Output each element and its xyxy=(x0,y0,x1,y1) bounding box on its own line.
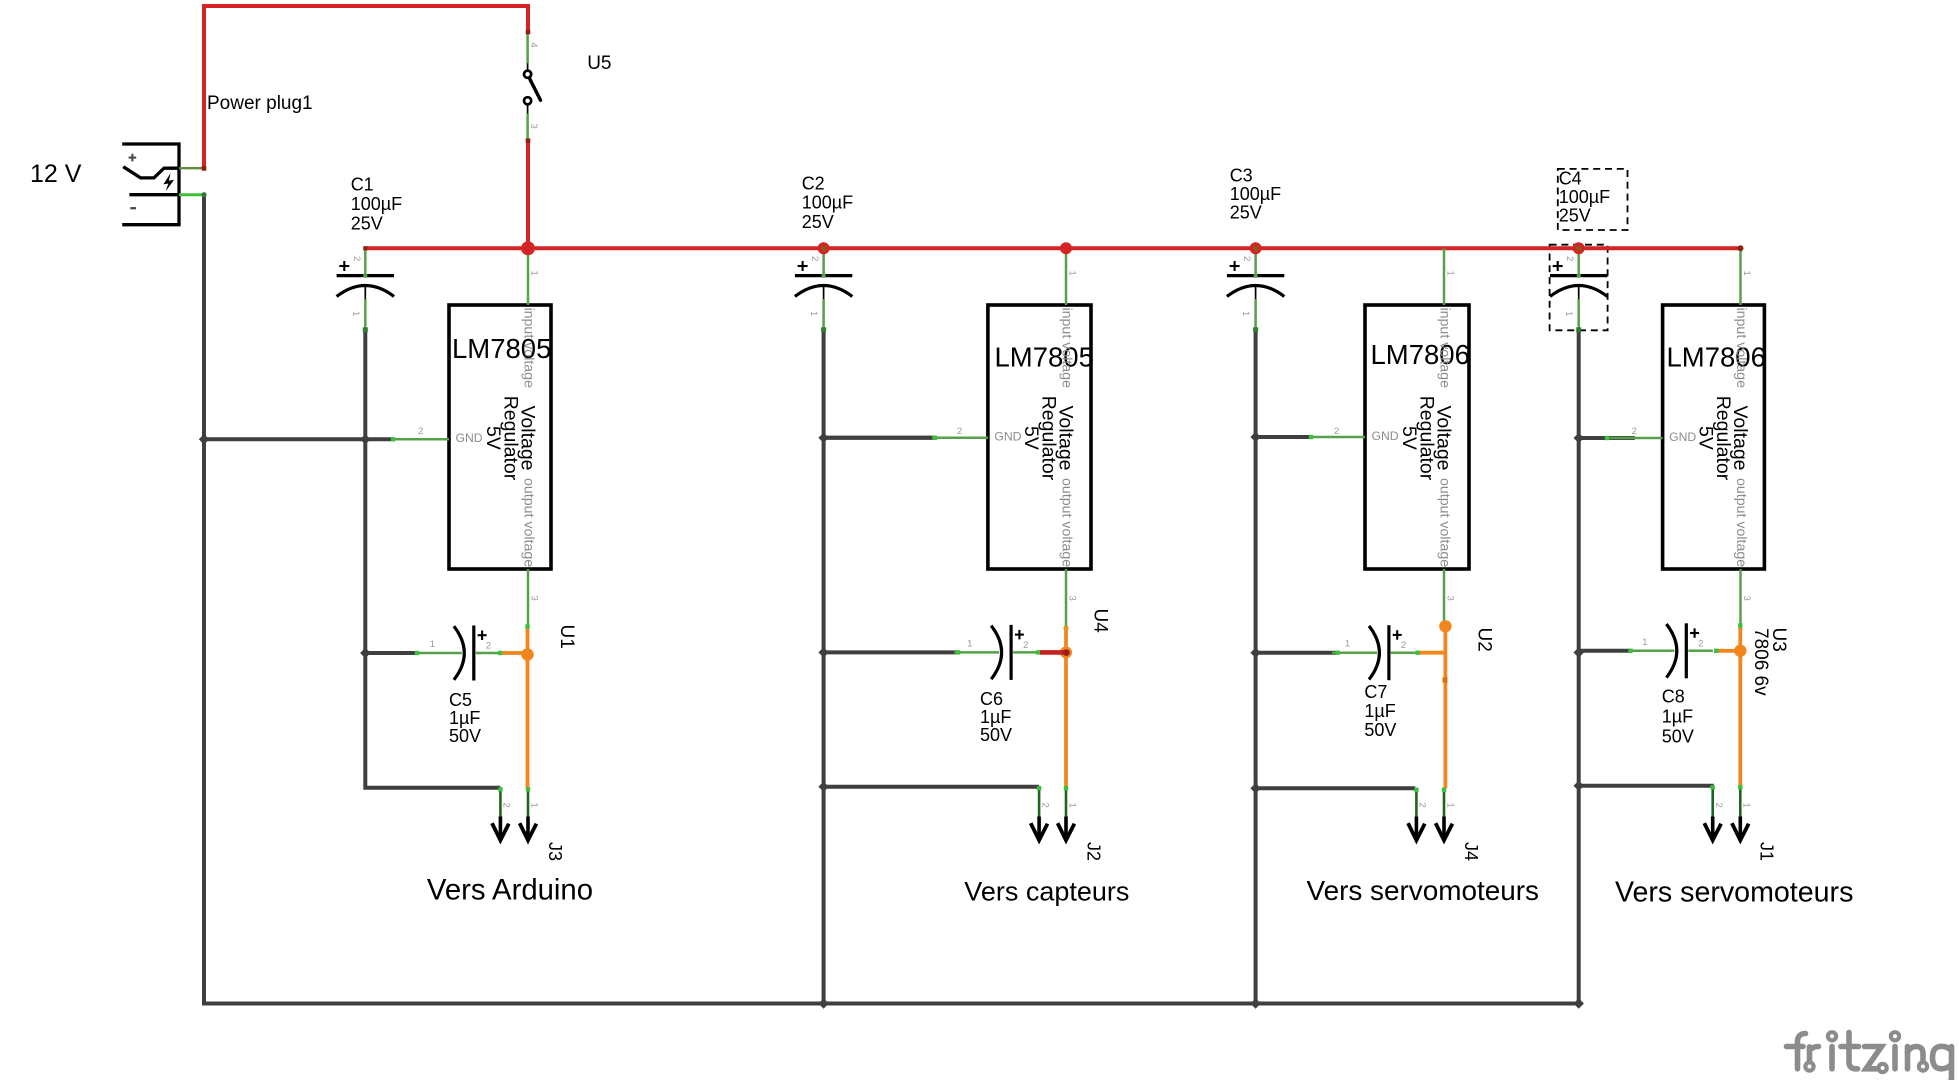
svg-text:5V: 5V xyxy=(482,426,504,450)
svg-text:1: 1 xyxy=(1741,271,1752,276)
svg-text:3: 3 xyxy=(1445,596,1456,601)
svg-text:1: 1 xyxy=(529,271,540,276)
svg-text:100µF: 100µF xyxy=(1559,187,1610,207)
svg-text:1: 1 xyxy=(1741,803,1752,808)
svg-text:C3: C3 xyxy=(1230,166,1253,186)
svg-text:GND: GND xyxy=(1669,430,1696,444)
svg-text:GND: GND xyxy=(1372,429,1399,443)
svg-text:1: 1 xyxy=(808,311,819,316)
svg-text:U4: U4 xyxy=(1090,609,1111,634)
svg-text:C6: C6 xyxy=(980,689,1003,709)
svg-text:input voltage: input voltage xyxy=(521,308,537,389)
svg-text:input voltage: input voltage xyxy=(1733,308,1749,389)
svg-text:C7: C7 xyxy=(1364,682,1387,702)
svg-text:LM7806: LM7806 xyxy=(1371,339,1470,370)
svg-text:2: 2 xyxy=(351,256,362,261)
svg-text:J3: J3 xyxy=(545,842,565,861)
svg-text:5V: 5V xyxy=(1398,426,1420,450)
svg-text:50V: 50V xyxy=(980,725,1012,745)
svg-text:C1: C1 xyxy=(351,175,374,195)
svg-text:2: 2 xyxy=(1713,803,1724,808)
svg-text:2: 2 xyxy=(1241,256,1252,261)
svg-text:25V: 25V xyxy=(1559,206,1591,226)
svg-text:1µF: 1µF xyxy=(449,708,480,728)
svg-text:2: 2 xyxy=(501,803,512,808)
svg-text:Power plug1: Power plug1 xyxy=(207,93,313,114)
svg-text:1: 1 xyxy=(430,639,435,650)
svg-text:1: 1 xyxy=(528,803,539,808)
svg-text:U5: U5 xyxy=(587,53,611,74)
svg-text:1µF: 1µF xyxy=(1364,701,1395,721)
svg-text:50V: 50V xyxy=(1364,720,1396,740)
svg-text:1: 1 xyxy=(350,311,361,316)
svg-text:2: 2 xyxy=(957,426,962,437)
svg-text:1µF: 1µF xyxy=(980,707,1011,727)
svg-text:25V: 25V xyxy=(802,212,834,232)
svg-text:50V: 50V xyxy=(449,726,481,746)
svg-text:output voltage: output voltage xyxy=(1733,478,1749,567)
svg-text:C4: C4 xyxy=(1559,168,1582,188)
svg-text:Vers Arduino: Vers Arduino xyxy=(427,874,593,907)
svg-text:1: 1 xyxy=(967,638,972,649)
svg-text:Vers servomoteurs: Vers servomoteurs xyxy=(1615,877,1853,909)
svg-text:100µF: 100µF xyxy=(802,193,853,213)
svg-text:GND: GND xyxy=(994,430,1021,444)
svg-text:Vers servomoteurs: Vers servomoteurs xyxy=(1307,875,1540,906)
svg-text:J4: J4 xyxy=(1461,842,1481,861)
svg-text:LM7805: LM7805 xyxy=(995,342,1094,373)
svg-text:output voltage: output voltage xyxy=(1059,478,1075,567)
svg-text:J2: J2 xyxy=(1084,842,1104,861)
svg-text:C2: C2 xyxy=(802,173,825,193)
svg-text:LM7806: LM7806 xyxy=(1667,342,1766,373)
svg-text:1: 1 xyxy=(1240,311,1251,316)
svg-text:C8: C8 xyxy=(1662,687,1685,707)
svg-text:input voltage: input voltage xyxy=(1437,308,1453,389)
svg-text:2: 2 xyxy=(1334,426,1339,437)
svg-text:7806 6v: 7806 6v xyxy=(1750,628,1771,696)
svg-text:1: 1 xyxy=(1444,803,1455,808)
svg-text:1µF: 1µF xyxy=(1662,707,1693,727)
svg-text:U1: U1 xyxy=(556,625,577,649)
svg-text:2: 2 xyxy=(809,256,820,261)
svg-text:2: 2 xyxy=(486,641,491,652)
svg-text:50V: 50V xyxy=(1662,727,1694,747)
svg-text:1: 1 xyxy=(1345,639,1350,650)
svg-text:1: 1 xyxy=(1445,271,1456,276)
svg-text:2: 2 xyxy=(1023,640,1028,651)
svg-text:Vers capteurs: Vers capteurs xyxy=(964,877,1129,907)
svg-text:2: 2 xyxy=(1417,803,1428,808)
svg-text:J1: J1 xyxy=(1757,842,1777,861)
svg-text:U2: U2 xyxy=(1474,628,1495,652)
svg-text:25V: 25V xyxy=(351,213,383,233)
svg-text:output voltage: output voltage xyxy=(521,478,537,567)
svg-text:12 V: 12 V xyxy=(30,160,82,188)
svg-text:3: 3 xyxy=(528,124,539,129)
svg-text:5V: 5V xyxy=(1020,426,1042,450)
svg-text:GND: GND xyxy=(456,431,483,445)
svg-text:output voltage: output voltage xyxy=(1437,478,1453,567)
svg-text:3: 3 xyxy=(1067,596,1078,601)
svg-text:2: 2 xyxy=(1632,426,1637,437)
svg-text:3: 3 xyxy=(529,596,540,601)
svg-text:100µF: 100µF xyxy=(1230,184,1281,204)
svg-text:C5: C5 xyxy=(449,690,472,710)
svg-text:1: 1 xyxy=(1563,311,1574,316)
svg-text:100µF: 100µF xyxy=(351,194,402,214)
svg-text:4: 4 xyxy=(528,42,539,47)
svg-text:2: 2 xyxy=(418,426,423,437)
svg-text:2: 2 xyxy=(1698,638,1703,649)
svg-text:input voltage: input voltage xyxy=(1059,308,1075,389)
svg-text:2: 2 xyxy=(1039,803,1050,808)
svg-text:2: 2 xyxy=(1401,640,1406,651)
svg-text:1: 1 xyxy=(1067,271,1078,276)
svg-text:5V: 5V xyxy=(1695,426,1717,450)
svg-text:3: 3 xyxy=(1741,596,1752,601)
svg-text:1: 1 xyxy=(1066,803,1077,808)
svg-text:1: 1 xyxy=(1642,637,1647,648)
svg-text:25V: 25V xyxy=(1230,203,1262,223)
svg-text:2: 2 xyxy=(1564,256,1575,261)
